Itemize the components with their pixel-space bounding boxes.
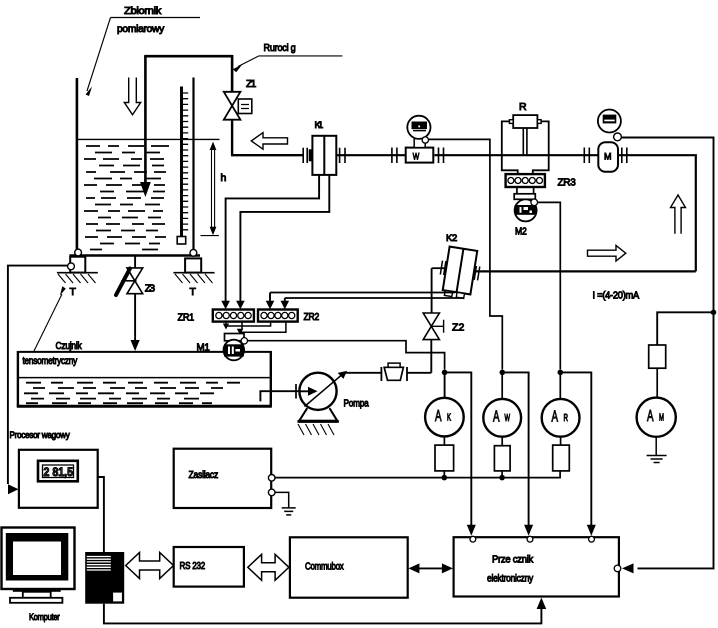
flow meter W with transmitter head [392,116,444,163]
ammeter A_K [425,372,464,477]
terminal strip ZR3 [506,174,576,188]
svg-text:A: A [647,408,654,425]
pipe K1 to W meter [350,154,405,156]
svg-text:Komputer: Komputer [29,612,60,623]
flow arrow (hollow, right) lower loop [588,245,626,261]
W connector circle [422,137,428,143]
wire strain gauge to processor [8,266,68,484]
resistor assembly R [502,101,549,174]
inlet pipe into tank [140,56,233,197]
pipe filter to Z2 junction [407,372,431,374]
ground under A_M [647,456,667,463]
coupling K2 (rotated) [432,233,483,300]
valve Z1 [224,78,257,120]
double-headed arrow Commubox-Przelacznik [408,563,453,573]
wire Procesor to computer tower and bottom bus [98,477,104,552]
terminal strip ZR1 [178,310,254,324]
label Czujnik tensometryczny [23,286,131,367]
svg-text:M2: M2 [515,226,527,238]
dimension h [201,142,227,236]
svg-text:Pompa: Pompa [344,398,369,410]
svg-text:Z1: Z1 [246,78,256,90]
wire M1 to A_K junction [248,341,445,370]
svg-text:pomiarowy: pomiarowy [117,23,165,35]
check valve / filter symbol [381,363,407,381]
svg-text:ZR3: ZR3 [558,177,576,189]
coupling K1 [303,120,350,175]
wires ZR1/ZR2 bottom to M1 [223,322,286,335]
measuring rod (ruler) [177,87,188,245]
arrow into Przelacznik right side [622,563,634,573]
svg-text:W: W [505,413,511,424]
box Procesor wagowy [10,430,98,508]
pipe Z2 down to pump line [430,340,432,373]
svg-text:Procesor wagowy: Procesor wagowy [10,430,70,441]
water hatching upper tank [84,146,169,250]
svg-text:K: K [447,413,451,424]
svg-text:K1: K1 [315,120,324,131]
svg-text:T: T [70,286,77,298]
pipe W to M meter [435,154,598,156]
svg-text:Zbiornik: Zbiornik [124,5,162,17]
M2 connector circle [531,199,538,206]
wire W to A_W junction [429,139,503,369]
wire M head to right edge and down to Przelacznik [621,138,713,569]
svg-text:2 81,5: 2 81,5 [44,465,74,479]
svg-text:R: R [564,413,569,424]
svg-text:Zasilacz: Zasilacz [189,469,219,481]
svg-text:Commubox: Commubox [305,561,344,573]
box RS 232 [174,547,244,587]
flow arrow (hollow, up) in right loop [671,195,686,234]
flow arrow (hollow, down) into tank [124,78,140,115]
svg-text:K2: K2 [446,233,457,244]
svg-text:ZR1: ZR1 [178,312,195,324]
motor M1 [197,334,245,361]
svg-text:elektroniczny: elektroniczny [487,573,534,585]
box Commubox [290,537,408,597]
wires K1 to ZR1 [226,175,320,302]
wires K2 to ZR2 [270,293,464,299]
svg-text:Prze cznik: Prze cznik [492,554,534,566]
tank Zbiornik pomiarowy walls [69,78,200,256]
svg-text:Czujnik: Czujnik [56,340,83,352]
double arrow tower-RS232 [126,553,174,579]
flow arrow (hollow, left) before K1 [251,133,287,150]
terminal strip ZR2 [258,310,319,324]
junction dot right wire [711,310,717,316]
water hatching lower tank [24,383,240,404]
svg-text:ZR2: ZR2 [304,311,320,323]
return pipe right loop to K2 [474,270,696,272]
label Rurociag [233,42,343,72]
wires junctions to Przelacznik top arrows [445,372,472,525]
ammeter A_W [483,372,521,477]
svg-text:M: M [659,413,664,424]
svg-text:tensometryczny: tensometryczny [23,355,78,367]
pipe Z1 down and right to K1 [231,120,304,156]
arrow strain wire into Procesor [8,484,19,494]
pipe K2 down to valve Z2 [431,268,433,313]
valve Z3 with lever [116,256,155,352]
wires K2 to ZR2 arrows [270,293,285,302]
power bus from Zasilacz under ammeters [275,471,560,478]
svg-text:R: R [519,101,527,113]
tank supports: right trunnion T [173,249,214,298]
computer tower [85,552,124,604]
svg-text:T: T [190,286,197,298]
box Zasilacz [174,449,275,508]
svg-text:Z3: Z3 [145,283,155,295]
svg-text:Ruroci g: Ruroci g [264,42,296,54]
box Przelacznik elektroniczny [454,536,621,596]
motor M2 [514,187,536,238]
svg-text:W: W [413,152,420,163]
svg-text:A: A [552,409,559,426]
suction pipe from reservoir [260,391,299,401]
junction dots above ammeters [442,370,448,376]
svg-text:M1: M1 [197,342,210,354]
pipe from corner down to valve Z1 [231,55,234,92]
flow meter M with transmitter head [584,110,627,172]
wire Zasilacz lower terminal to ground [275,492,289,508]
wire M2 to A_R junction [538,202,561,369]
svg-text:M: M [604,152,612,163]
pipe M to right loop corner, down [619,155,696,271]
double arrow RS232-Commubox [248,554,289,580]
ammeter A_M [637,312,714,455]
svg-text:A: A [493,409,500,426]
ground under Zasilacz [282,508,296,515]
svg-text:I =(4-20)mA: I =(4-20)mA [593,290,640,302]
lower tank (reservoir) [17,351,272,407]
svg-text:RS 232: RS 232 [180,560,206,572]
tank supports: left trunnion T [57,249,98,298]
pipe pump to filter [344,372,381,374]
svg-text:Z2: Z2 [452,322,464,334]
valve Z2 [423,313,464,340]
M connector circle [614,133,622,141]
M1 connector circle [241,338,247,344]
ammeter A_R [542,372,580,471]
svg-text:h: h [221,172,227,184]
label Zbiornik pomiarowy [86,5,201,96]
svg-text:A: A [435,408,442,425]
pump [298,371,369,435]
water surface line upper tank [78,138,220,140]
computer monitor [2,528,75,624]
